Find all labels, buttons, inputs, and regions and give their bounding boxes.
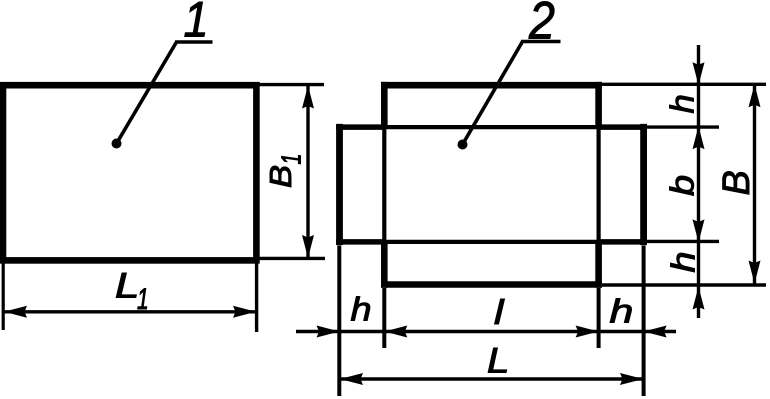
extension line bottom of horizontal rect to right (645, 240, 719, 243)
svg-text:B: B (716, 170, 758, 195)
arrow b up (693, 126, 705, 149)
svg-text:B: B (263, 165, 298, 188)
vertical rect 2 left edge upper (381, 82, 388, 127)
dimension line L1 (4, 310, 256, 313)
arrow B1 down (302, 235, 314, 258)
arrow L left (340, 373, 363, 385)
horizontal rect 2 top edge left part (336, 124, 386, 130)
svg-text:L: L (115, 267, 139, 306)
vertical rect 2 right edge upper (595, 82, 602, 127)
extension line L1 right (255, 260, 258, 332)
svg-text:h: h (610, 293, 634, 330)
horizontal rect 2 top edge right part (597, 124, 647, 130)
svg-text:h: h (665, 251, 702, 272)
dimension line L (340, 377, 643, 380)
arrow B1 up (302, 86, 314, 109)
arrow h right outside pointing left (644, 326, 667, 338)
arrow B up (749, 84, 761, 107)
svg-text:b: b (664, 175, 701, 196)
extension line L right (below horizontal rect right edge) (642, 246, 646, 397)
extension line bottom of vertical rect to right (602, 283, 766, 286)
leader shelf 1 (175, 40, 213, 44)
horizontal rect 2 right edge (640, 124, 647, 245)
leader shelf 2 (521, 40, 561, 44)
arrow l left (384, 326, 407, 338)
vertical rect 2 top edge (381, 82, 602, 89)
extension line l left (below vertical rect left edge) (382, 288, 386, 348)
arrow L1 left (4, 306, 27, 318)
svg-text:1: 1 (137, 284, 149, 316)
rectangle figure 2 horizontal rect thin interior edges (381, 125, 602, 129)
extension line l right (below vertical rect right edge) (597, 288, 601, 348)
vertical rect 2 right edge lower (595, 242, 602, 288)
vertical rect 2 bottom edge (381, 281, 602, 288)
svg-text:h: h (351, 291, 372, 328)
arrow B down (749, 261, 761, 284)
arrow h top down (693, 62, 705, 85)
extension line B1 top (259, 83, 324, 86)
arrow h left outside pointing right (317, 326, 340, 338)
leader dot 2 (458, 140, 468, 150)
svg-text:1: 1 (276, 154, 307, 165)
dimension line B (753, 84, 756, 285)
horizontal rect 2 left edge (336, 124, 343, 245)
vertical rect 2 left edge lower (381, 242, 388, 288)
rectangle figure 2 vertical rect thin interior edges (382, 124, 386, 245)
extension line L left (below horizontal rect left edge) (337, 246, 341, 397)
arrow b down (693, 219, 705, 242)
dimension line h b h column (697, 45, 700, 318)
extension line top of horizontal rect to right (645, 125, 719, 128)
dimension line B1 (306, 86, 309, 259)
extension line B1 bottom (259, 257, 325, 260)
leader dot 1 (112, 139, 122, 149)
arrow l right (576, 326, 599, 338)
leader line 2 (463, 42, 523, 145)
arrow L right (620, 373, 643, 385)
rectangle figure 1 outline (3, 85, 256, 260)
dimension line h l h row (296, 330, 676, 333)
arrow L1 right (233, 306, 256, 318)
extension line L1 left (2, 260, 5, 330)
leader line 1 (117, 42, 177, 144)
svg-text:l: l (494, 294, 505, 332)
svg-text:h: h (664, 94, 701, 113)
svg-text:1: 1 (183, 0, 208, 48)
svg-text:L: L (487, 341, 509, 380)
svg-text:2: 2 (528, 0, 555, 50)
arrow h bottom up (693, 287, 705, 310)
horizontal rect 2 bottom edge left part (336, 239, 386, 245)
horizontal rect 2 bottom edge right part (597, 239, 647, 245)
extension line top of vertical rect to right (602, 83, 766, 86)
